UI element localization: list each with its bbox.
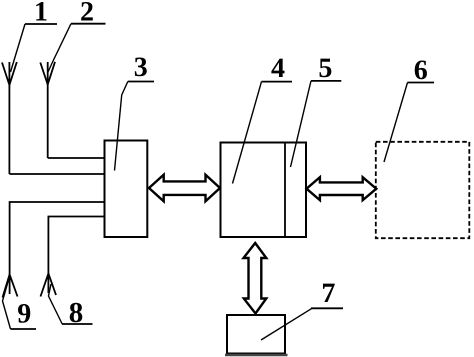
box 7	[227, 315, 285, 354]
leader 5	[291, 81, 312, 167]
double arrow box4-box7 vertical	[244, 243, 267, 314]
antenna 9 arrowhead	[3, 275, 18, 298]
svg-text:9: 9	[17, 299, 31, 330]
leader 7	[261, 308, 312, 340]
svg-text:6: 6	[414, 55, 428, 86]
double arrow box5-box6	[307, 177, 377, 200]
svg-text:7: 7	[321, 278, 335, 309]
leader 4	[233, 82, 262, 184]
leader 8	[49, 284, 63, 324]
wire antenna1 to box3	[9, 173, 104, 175]
antenna 8 arrowhead	[41, 274, 57, 297]
box 4	[221, 143, 307, 238]
wire box3 to antenna 8	[48, 217, 104, 294]
divider line of section 5	[284, 143, 286, 238]
double arrow box3-box4	[149, 175, 220, 202]
leader 1	[11, 24, 26, 72]
leader 9	[3, 280, 11, 329]
antenna 2	[40, 62, 55, 158]
wire box3 to antenna 9	[10, 202, 105, 294]
wire antenna2 to box3	[48, 157, 105, 159]
antenna 1	[2, 62, 17, 174]
svg-text:4: 4	[271, 53, 285, 84]
leader 3	[115, 82, 128, 171]
box 3	[105, 141, 148, 238]
svg-text:5: 5	[318, 53, 332, 84]
box 7 thick bottom edge	[225, 354, 288, 357]
svg-text:3: 3	[134, 52, 148, 83]
leader 2	[48, 24, 71, 72]
dashed box 6	[376, 142, 470, 238]
leader 6	[384, 83, 408, 163]
